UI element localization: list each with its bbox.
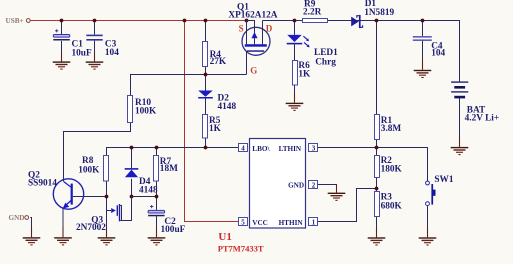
svg-text:1K: 1K bbox=[298, 69, 311, 79]
ground stem C2 bbox=[156, 227, 158, 237]
wire R1 stems bbox=[376, 21, 378, 148]
svg-text:680K: 680K bbox=[381, 201, 403, 211]
svg-text:G: G bbox=[250, 65, 257, 75]
node junction C3 on rail bbox=[93, 19, 97, 23]
resistor R6 bbox=[293, 61, 298, 86]
node junction C1 on rail bbox=[60, 19, 64, 23]
ground GND terminal bbox=[23, 237, 41, 245]
wire Q2 base to node bbox=[73, 196, 107, 198]
node junction R1/R2 on LTHIN net bbox=[375, 146, 379, 150]
svg-text:4.2V Li+: 4.2V Li+ bbox=[465, 114, 500, 124]
ground stem Q3 node bbox=[106, 227, 108, 237]
node junction R7 top on LBO net bbox=[155, 146, 159, 150]
wire C2 stems bbox=[156, 197, 158, 229]
ground C4 bbox=[414, 70, 432, 78]
ground stem U1 pin2 bbox=[336, 185, 338, 193]
svg-text:2.2R: 2.2R bbox=[303, 7, 322, 17]
wire C4 stems bbox=[422, 21, 424, 62]
node junction Q1 source bbox=[245, 19, 249, 23]
svg-text:LED1: LED1 bbox=[314, 48, 338, 58]
diode D2 bbox=[198, 91, 213, 99]
node junction C4 on rail bbox=[421, 19, 425, 23]
resistor R1 bbox=[375, 115, 380, 140]
resistor R3 bbox=[375, 192, 380, 217]
ground stem C3 bbox=[94, 52, 96, 61]
svg-text:3.8M: 3.8M bbox=[381, 124, 402, 134]
ground stem C4 bbox=[422, 60, 424, 70]
ground C2 bbox=[148, 237, 166, 245]
transistor Q3 bbox=[107, 197, 132, 222]
capacitor C2 bbox=[148, 205, 165, 216]
ground stem C1 bbox=[61, 52, 63, 61]
svg-text:4: 4 bbox=[241, 144, 245, 152]
ground C1 bbox=[53, 61, 71, 69]
svg-text:2: 2 bbox=[312, 181, 316, 189]
resistor R9 bbox=[303, 19, 328, 23]
switch SW1 bbox=[426, 181, 436, 206]
wire net LBO: R8 top along to U1 pin 4 bbox=[107, 148, 239, 156]
ground stem GND terminal bbox=[31, 227, 33, 237]
wire node dot2 to C2 node bbox=[132, 196, 157, 198]
LED LED1 bbox=[287, 35, 310, 48]
wire R3 stems bbox=[376, 189, 378, 229]
terminal GND bbox=[25, 216, 29, 220]
wire GND net: U1 pin2 to ground bbox=[318, 184, 337, 187]
node junction D4 anode / Q3 drain bbox=[130, 195, 134, 199]
svg-text:LTHIN: LTHIN bbox=[279, 145, 302, 153]
ground stem SW1 bbox=[427, 228, 429, 238]
node junction Q2 base / R8 bottom bbox=[105, 195, 109, 199]
wire LED / R6 stems bbox=[294, 21, 296, 95]
svg-text:4148: 4148 bbox=[218, 102, 237, 112]
resistor R5 bbox=[203, 115, 208, 139]
pin 2 box bbox=[309, 181, 318, 190]
wire LTHIN net: U1 pin3 to R1/R2 junction to SW1 bbox=[318, 148, 428, 182]
wire C1 stems bbox=[61, 21, 63, 54]
svg-text:VCC: VCC bbox=[252, 219, 268, 227]
ground R3 bbox=[368, 237, 386, 245]
ground stem R3 bbox=[376, 228, 378, 238]
ground stem Q2 emitter bbox=[62, 227, 64, 237]
node junction gate net at R4/D2 bbox=[204, 73, 208, 77]
svg-text:1: 1 bbox=[312, 218, 316, 226]
diode D4 bbox=[125, 168, 139, 177]
svg-text:100K: 100K bbox=[78, 166, 100, 176]
svg-text:18M: 18M bbox=[160, 164, 178, 174]
svg-text:R8: R8 bbox=[82, 156, 94, 166]
svg-text:USB+: USB+ bbox=[6, 17, 24, 25]
transistor Q2 bbox=[53, 179, 83, 209]
ground stem R6 bbox=[294, 93, 296, 103]
wire GND terminal bbox=[30, 218, 31, 229]
pin 5 box bbox=[239, 218, 248, 227]
svg-text:100K: 100K bbox=[135, 107, 157, 117]
ground battery bbox=[451, 147, 469, 155]
capacitor C4 bbox=[413, 36, 432, 41]
ground SW1 bbox=[419, 237, 437, 245]
svg-text:104: 104 bbox=[105, 48, 119, 58]
node junction VCC red riser bbox=[183, 19, 187, 23]
svg-text:104: 104 bbox=[431, 49, 445, 59]
svg-text:U1: U1 bbox=[218, 231, 231, 243]
resistor R2 bbox=[375, 156, 380, 178]
pin 1 box bbox=[309, 218, 318, 227]
svg-text:180K: 180K bbox=[381, 165, 403, 175]
svg-text:1N5819: 1N5819 bbox=[364, 8, 394, 18]
svg-text:LBO\: LBO\ bbox=[252, 145, 270, 153]
wire gate net: R10 top to R4 junction to Q1 gate bbox=[131, 67, 247, 96]
ground R6 bbox=[286, 103, 304, 111]
wire HTHIN net: U1 pin1 to R2/R3 junction bbox=[318, 189, 377, 222]
wire battery bottom bbox=[459, 98, 461, 138]
wire Q2 collector to R10 bottom bbox=[64, 123, 131, 182]
ground Q3 node bbox=[98, 237, 116, 245]
diode D1 bbox=[351, 15, 362, 28]
node junction R7 bottom / C2 top bbox=[155, 195, 159, 199]
svg-text:SS9014: SS9014 bbox=[28, 179, 57, 189]
node junction D4 cathode on LBO net bbox=[130, 146, 134, 150]
node junction R4 on rail bbox=[204, 19, 208, 23]
wire node1 down toward ground bbox=[106, 181, 108, 228]
svg-text:27K: 27K bbox=[210, 57, 227, 67]
wire R7 stems bbox=[156, 148, 158, 197]
pin 4 box bbox=[239, 144, 248, 153]
svg-text:GND: GND bbox=[9, 214, 25, 222]
ground Q2 emitter bbox=[54, 237, 72, 245]
svg-text:HTHIN: HTHIN bbox=[279, 219, 304, 227]
capacitor C1 bbox=[53, 29, 70, 40]
IC U1 body bbox=[250, 139, 306, 229]
resistor R4 bbox=[203, 42, 208, 67]
svg-text:SW1: SW1 bbox=[434, 175, 453, 185]
terminal USB+ bbox=[26, 19, 30, 23]
svg-text:PT7M7433T: PT7M7433T bbox=[218, 244, 264, 254]
svg-text:XP162A12A: XP162A12A bbox=[228, 10, 277, 20]
resistor R10 bbox=[128, 96, 133, 123]
node junction R1 on rail bbox=[375, 19, 379, 23]
ground stem battery bbox=[459, 137, 461, 147]
transistor Q1 bbox=[242, 21, 270, 75]
svg-text:10uF: 10uF bbox=[72, 49, 92, 59]
svg-text:1K: 1K bbox=[209, 124, 222, 134]
svg-text:4148: 4148 bbox=[139, 185, 158, 195]
svg-text:S: S bbox=[239, 24, 244, 34]
capacitor C3 bbox=[86, 35, 102, 41]
resistor R7 bbox=[154, 156, 159, 182]
wire R2 stems bbox=[376, 148, 378, 189]
svg-text:3: 3 bbox=[312, 144, 316, 152]
svg-text:Chrg: Chrg bbox=[315, 58, 336, 68]
node junction R2/R3 on HTHIN net bbox=[375, 187, 379, 191]
svg-text:GND: GND bbox=[288, 182, 304, 190]
ground C3 bbox=[86, 61, 104, 69]
svg-text:100uF: 100uF bbox=[161, 225, 186, 235]
wire top rail red: USB+ to Q1 source bbox=[30, 20, 246, 22]
wire top rail navy: Q1 drain to battery bbox=[263, 21, 460, 82]
wire D4 stems bbox=[131, 148, 133, 197]
ground U1 pin2 bbox=[328, 193, 346, 201]
svg-text:5: 5 bbox=[241, 218, 245, 226]
battery BAT bbox=[451, 81, 468, 98]
wire VCC red: top rail down to U1 pin 5 bbox=[185, 21, 239, 222]
svg-text:2N7002: 2N7002 bbox=[76, 223, 106, 233]
pin 3 box bbox=[309, 144, 318, 153]
wire SW1 bottom bbox=[427, 206, 429, 229]
wire R4 top bbox=[205, 21, 207, 42]
resistor R8 bbox=[104, 156, 109, 182]
node junction LED1 on rail bbox=[293, 19, 297, 23]
wire D2/R5 column stems bbox=[205, 75, 207, 148]
wire Q2 emitter down bbox=[62, 208, 64, 228]
node junction R5 bottom on LBO net bbox=[204, 146, 208, 150]
wire C3 stems bbox=[94, 21, 96, 54]
svg-text:D: D bbox=[266, 24, 273, 34]
